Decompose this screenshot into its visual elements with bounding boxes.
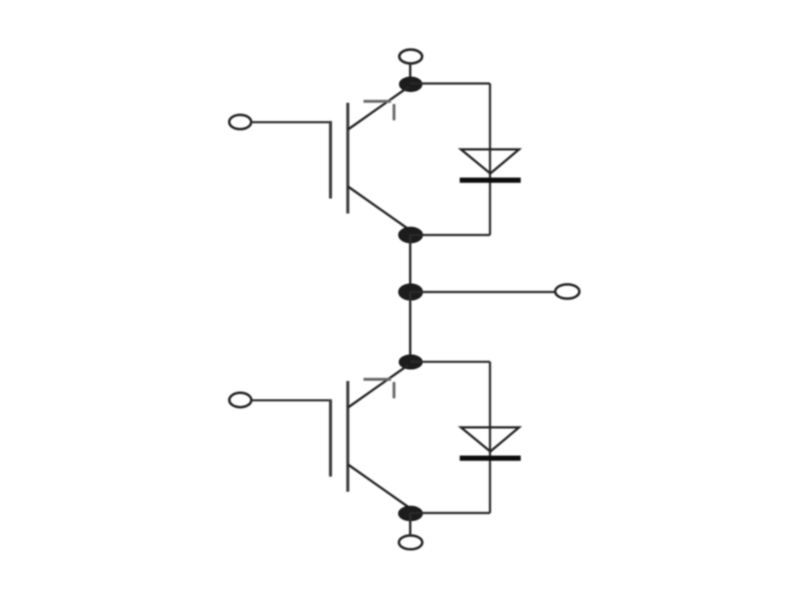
- wire (emitter node down to midpoint node): [409, 235, 411, 292]
- wire (collector node to diode D1 cathode branch): [410, 82, 490, 84]
- wire (midpoint node to AC terminal): [410, 291, 556, 293]
- wire (lower collector node to diode D2 cathode branch): [410, 361, 490, 363]
- wire (diode D1 branch vertical): [489, 84, 491, 236]
- transistor Q1 emitter lead: [348, 187, 409, 230]
- diode D1 cathode bar: [460, 178, 521, 183]
- diode D2 cathode bar: [460, 456, 521, 461]
- transistor Q1 body bar: [346, 103, 349, 214]
- transistor Q1 gate bar: [329, 121, 332, 199]
- node (top IGBT collector junction): [400, 77, 422, 91]
- transistor Q2 collector lead: [348, 365, 409, 408]
- transistor Q2 arrow barb horizontal: [364, 378, 392, 381]
- transistor Q1 arrow barb vertical: [393, 104, 396, 120]
- transistor Q2 emitter lead: [348, 465, 409, 508]
- wire (emitter node to diode D1 anode): [410, 234, 490, 236]
- diode D1 triangle (anode): [461, 149, 519, 173]
- transistor Q1 arrow barb horizontal: [364, 100, 392, 103]
- terminal AC (midpoint output): [555, 284, 579, 298]
- wire (diode D2 branch vertical): [489, 362, 491, 513]
- node (top IGBT emitter junction): [399, 227, 423, 242]
- node (midpoint AC output junction): [399, 284, 423, 300]
- transistor Q2 arrow barb vertical: [393, 382, 396, 398]
- terminal N (bottom emitter terminal): [399, 536, 422, 550]
- transistor Q2 body bar: [346, 381, 349, 492]
- terminal G2 (lower gate): [229, 393, 251, 407]
- wire (gate G1 lead): [251, 121, 332, 123]
- wire (midpoint node down to lower collector node): [409, 292, 411, 356]
- diode D2 triangle (anode): [461, 427, 519, 451]
- node (lower IGBT collector junction): [399, 355, 422, 369]
- wire (terminal P to collector node): [409, 64, 411, 80]
- terminal P (top collector terminal): [399, 50, 422, 64]
- wire (gate G2 lead): [251, 399, 332, 401]
- wire (lower emitter node to diode D2 anode): [410, 512, 490, 514]
- node (lower IGBT emitter junction): [399, 506, 423, 520]
- wire (lower emitter node to terminal N): [409, 514, 411, 537]
- transistor Q2 gate bar: [329, 400, 332, 477]
- transistor Q1 collector lead: [348, 87, 409, 130]
- terminal G1 (upper gate): [229, 115, 251, 129]
